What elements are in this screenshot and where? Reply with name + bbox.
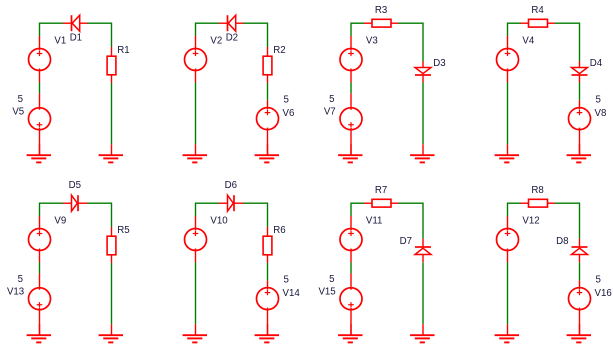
wire xyxy=(350,83,352,94)
svg-text:R3: R3 xyxy=(375,5,387,16)
voltage source V2 xyxy=(185,36,207,83)
svg-text:D4: D4 xyxy=(590,58,603,69)
svg-text:5: 5 xyxy=(18,274,23,285)
wire xyxy=(351,22,365,24)
diode D1 xyxy=(63,15,88,31)
voltage source V16 xyxy=(569,280,591,335)
resistor R3 xyxy=(364,19,399,27)
wire xyxy=(195,263,197,325)
ground xyxy=(338,324,362,342)
wire xyxy=(507,23,509,37)
wire xyxy=(111,203,113,228)
diode D4 xyxy=(572,61,588,83)
voltage source V9 xyxy=(29,216,51,263)
svg-text:D3: D3 xyxy=(433,58,445,69)
resistor R1 xyxy=(107,47,116,83)
ground xyxy=(338,144,362,162)
svg-text:5: 5 xyxy=(284,95,289,106)
svg-text:D7: D7 xyxy=(400,236,412,247)
ground xyxy=(99,144,123,162)
wire xyxy=(195,83,197,145)
svg-text:V8: V8 xyxy=(595,108,607,119)
wire xyxy=(507,203,509,217)
voltage source V5 xyxy=(29,93,51,155)
svg-text:D2: D2 xyxy=(226,33,238,44)
voltage source V13 xyxy=(29,273,51,335)
wire xyxy=(555,22,580,24)
wire xyxy=(243,202,267,204)
ground xyxy=(567,324,591,342)
svg-text:5: 5 xyxy=(18,94,23,105)
diode D6 xyxy=(219,195,244,211)
resistor R4 xyxy=(521,19,556,27)
svg-text:R8: R8 xyxy=(531,185,543,196)
diode D2 xyxy=(219,15,244,31)
wire xyxy=(579,83,581,101)
svg-text:5: 5 xyxy=(329,274,334,285)
voltage source V7 xyxy=(340,93,362,155)
ground xyxy=(495,324,519,342)
svg-text:V12: V12 xyxy=(522,216,539,227)
voltage source V10 xyxy=(185,216,207,263)
svg-text:V7: V7 xyxy=(324,107,336,118)
svg-text:V15: V15 xyxy=(318,287,335,298)
wire xyxy=(267,83,269,100)
svg-text:5: 5 xyxy=(596,95,601,106)
wire xyxy=(507,263,509,325)
wire xyxy=(40,22,64,24)
svg-text:R1: R1 xyxy=(117,45,129,56)
svg-text:R6: R6 xyxy=(273,225,285,236)
wire xyxy=(422,263,424,325)
voltage source V6 xyxy=(257,100,279,155)
svg-text:V2: V2 xyxy=(210,36,222,47)
svg-text:D8: D8 xyxy=(556,236,568,247)
wire xyxy=(267,263,269,280)
wire xyxy=(579,263,581,281)
ground xyxy=(27,324,51,342)
svg-text:V14: V14 xyxy=(283,288,301,299)
wire xyxy=(39,23,41,37)
resistor R6 xyxy=(263,227,272,263)
ground xyxy=(255,324,279,342)
svg-text:V16: V16 xyxy=(595,288,612,299)
wire xyxy=(508,22,522,24)
wire xyxy=(39,203,41,217)
wire xyxy=(350,23,352,37)
svg-text:5: 5 xyxy=(596,275,601,286)
voltage source V3 xyxy=(340,36,362,83)
wire xyxy=(195,203,197,217)
ground xyxy=(27,144,51,162)
ground xyxy=(410,144,434,162)
wire xyxy=(39,263,41,274)
diode D3 xyxy=(415,61,431,83)
wire xyxy=(267,23,269,48)
svg-text:D1: D1 xyxy=(70,33,82,44)
svg-text:V1: V1 xyxy=(54,36,66,47)
ground xyxy=(99,324,123,342)
wire xyxy=(555,202,580,204)
voltage source V8 xyxy=(569,100,591,155)
ground xyxy=(183,144,207,162)
voltage source V1 xyxy=(29,36,51,83)
wire xyxy=(40,202,64,204)
svg-text:V5: V5 xyxy=(12,107,24,118)
voltage source V4 xyxy=(497,36,519,83)
wire xyxy=(398,22,423,24)
ground xyxy=(183,324,207,342)
svg-text:R2: R2 xyxy=(273,45,285,56)
wire xyxy=(350,203,352,217)
diode D5 xyxy=(63,195,88,211)
voltage source V14 xyxy=(257,280,279,335)
wire xyxy=(398,202,423,204)
wire xyxy=(87,202,111,204)
wire xyxy=(350,263,352,274)
wire xyxy=(579,203,581,239)
wire xyxy=(196,22,220,24)
wire xyxy=(422,203,424,239)
wire xyxy=(111,83,113,144)
svg-text:R7: R7 xyxy=(375,185,387,196)
svg-text:V9: V9 xyxy=(54,216,66,227)
ground xyxy=(255,144,279,162)
svg-text:V10: V10 xyxy=(210,216,228,227)
resistor R8 xyxy=(521,199,556,207)
wire xyxy=(196,202,220,204)
svg-text:V6: V6 xyxy=(283,108,295,119)
svg-text:5: 5 xyxy=(329,94,334,105)
voltage source V11 xyxy=(340,216,362,263)
ground xyxy=(495,144,519,162)
wire xyxy=(267,203,269,228)
resistor R5 xyxy=(107,227,116,263)
diode D7 xyxy=(415,239,431,263)
wire xyxy=(422,23,424,62)
wire xyxy=(87,22,111,24)
wire xyxy=(243,22,267,24)
svg-text:5: 5 xyxy=(284,275,289,286)
svg-text:V4: V4 xyxy=(522,36,534,47)
wire xyxy=(39,83,41,94)
svg-text:R5: R5 xyxy=(117,225,129,236)
svg-text:V11: V11 xyxy=(366,216,383,227)
svg-text:D6: D6 xyxy=(225,180,237,191)
wire xyxy=(111,263,113,324)
resistor R2 xyxy=(263,47,272,83)
voltage source V15 xyxy=(340,273,362,335)
svg-text:V13: V13 xyxy=(7,287,24,298)
wire xyxy=(508,202,522,204)
ground xyxy=(567,144,591,162)
wire xyxy=(579,23,581,62)
wire xyxy=(195,23,197,37)
wire xyxy=(111,23,113,48)
voltage source V12 xyxy=(497,216,519,263)
ground xyxy=(410,324,434,342)
wire xyxy=(507,83,509,145)
wire xyxy=(422,83,424,145)
wire xyxy=(351,202,365,204)
resistor R7 xyxy=(364,199,399,207)
diode D8 xyxy=(572,239,588,263)
svg-text:R4: R4 xyxy=(531,5,544,16)
svg-text:V3: V3 xyxy=(366,36,378,47)
svg-text:D5: D5 xyxy=(69,180,81,191)
